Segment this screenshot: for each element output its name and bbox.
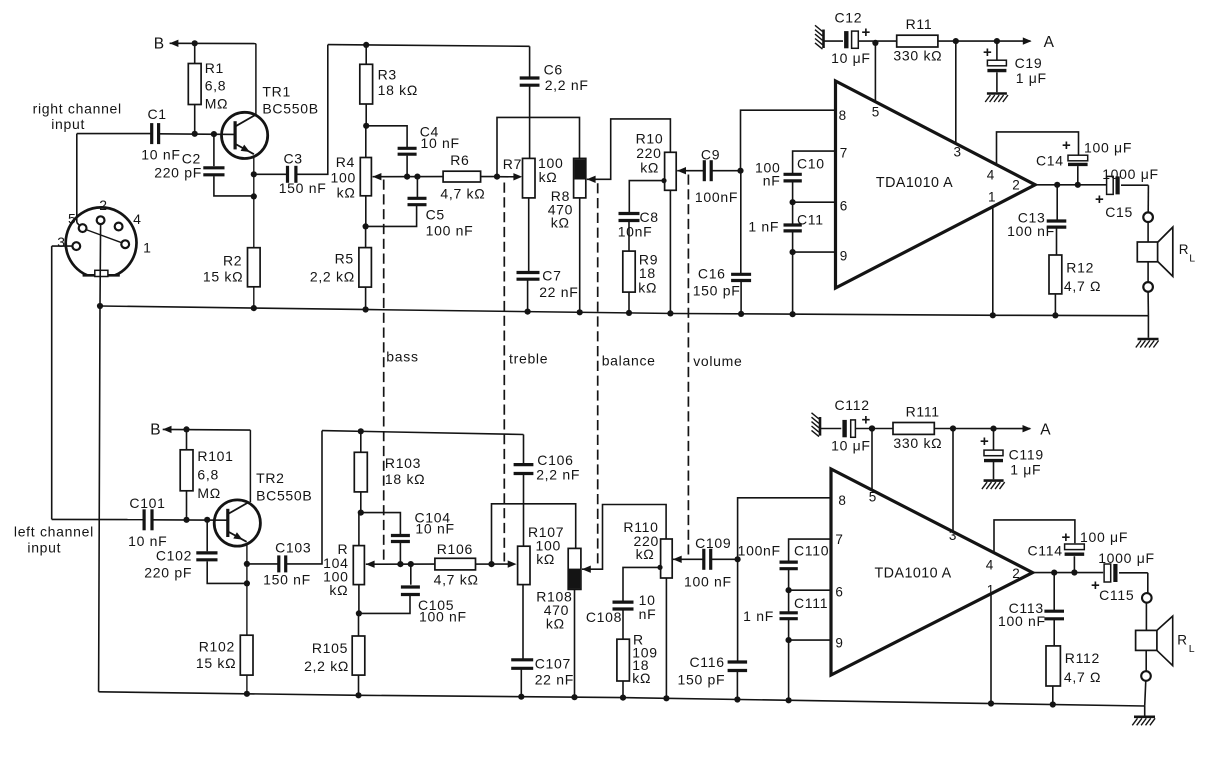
svg-text:input: input — [51, 116, 85, 132]
svg-text:C109: C109 — [695, 535, 731, 551]
svg-text:R105: R105 — [312, 640, 348, 656]
svg-text:10nF: 10nF — [618, 224, 653, 240]
svg-text:balance: balance — [602, 353, 656, 369]
svg-text:8: 8 — [839, 108, 847, 123]
svg-text:C10: C10 — [797, 156, 825, 172]
svg-text:kΩ: kΩ — [640, 160, 659, 176]
svg-text:4: 4 — [986, 558, 994, 573]
svg-text:TDA1010 A: TDA1010 A — [875, 565, 952, 581]
svg-text:1 nF: 1 nF — [743, 608, 774, 624]
svg-text:4,7 kΩ: 4,7 kΩ — [434, 572, 479, 588]
svg-text:9: 9 — [840, 249, 848, 264]
svg-text:22 nF: 22 nF — [539, 284, 578, 300]
svg-text:1: 1 — [143, 240, 152, 256]
svg-text:+: + — [983, 44, 992, 61]
svg-text:10 μF: 10 μF — [831, 438, 871, 454]
svg-text:1: 1 — [987, 583, 995, 598]
svg-text:TR2: TR2 — [256, 470, 285, 486]
svg-text:7: 7 — [835, 532, 843, 547]
svg-text:C114: C114 — [1028, 543, 1063, 559]
svg-text:R102: R102 — [199, 639, 235, 655]
svg-text:3: 3 — [57, 234, 66, 250]
svg-text:330 kΩ: 330 kΩ — [893, 435, 942, 451]
svg-text:R7: R7 — [503, 156, 522, 172]
svg-text:C115: C115 — [1099, 587, 1134, 603]
svg-text:kΩ: kΩ — [551, 215, 570, 231]
svg-text:right channel: right channel — [33, 101, 122, 117]
svg-text:C1: C1 — [148, 106, 167, 122]
svg-text:100 μF: 100 μF — [1080, 529, 1128, 545]
svg-text:C14: C14 — [1036, 153, 1064, 169]
svg-text:left channel: left channel — [14, 524, 94, 540]
svg-text:+: + — [1062, 137, 1071, 154]
svg-text:bass: bass — [386, 349, 418, 365]
svg-text:R103: R103 — [385, 455, 421, 471]
svg-text:C3: C3 — [284, 151, 303, 167]
svg-text:15 kΩ: 15 kΩ — [196, 655, 236, 671]
svg-text:100 nF: 100 nF — [426, 223, 474, 239]
svg-text:3: 3 — [954, 145, 962, 160]
svg-text:kΩ: kΩ — [539, 169, 558, 185]
svg-text:R112: R112 — [1065, 650, 1100, 666]
svg-text:100 nF: 100 nF — [1007, 223, 1055, 239]
svg-text:330 kΩ: 330 kΩ — [893, 48, 942, 64]
svg-text:R1: R1 — [205, 60, 224, 76]
svg-text:220 pF: 220 pF — [144, 565, 192, 581]
svg-text:3: 3 — [949, 528, 957, 543]
svg-text:volume: volume — [693, 353, 742, 369]
svg-text:A: A — [1044, 34, 1055, 51]
svg-text:6: 6 — [840, 199, 848, 214]
svg-text:MΩ: MΩ — [197, 485, 221, 501]
svg-text:BC550B: BC550B — [256, 488, 312, 504]
svg-text:100 nF: 100 nF — [419, 609, 467, 625]
svg-text:R4: R4 — [336, 154, 355, 170]
svg-text:C107: C107 — [535, 656, 571, 672]
svg-text:C15: C15 — [1105, 204, 1133, 220]
svg-text:TR1: TR1 — [262, 84, 291, 100]
svg-text:MΩ: MΩ — [205, 96, 229, 112]
svg-text:2,2 nF: 2,2 nF — [536, 467, 580, 483]
svg-text:kΩ: kΩ — [546, 616, 565, 632]
svg-text:BC550B: BC550B — [262, 101, 318, 117]
svg-text:R2: R2 — [223, 253, 242, 269]
svg-text:R101: R101 — [197, 448, 233, 464]
svg-text:L: L — [1189, 643, 1196, 655]
svg-text:A: A — [1040, 422, 1051, 439]
svg-text:1000 μF: 1000 μF — [1102, 166, 1159, 182]
svg-text:C7: C7 — [542, 268, 561, 284]
svg-text:10 μF: 10 μF — [831, 50, 871, 66]
svg-text:C110: C110 — [794, 543, 829, 559]
svg-text:L: L — [1189, 253, 1196, 265]
svg-text:10 nF: 10 nF — [415, 521, 454, 537]
svg-text:7: 7 — [840, 146, 848, 161]
svg-text:+: + — [1095, 191, 1104, 208]
svg-text:R: R — [1179, 242, 1189, 257]
svg-text:R6: R6 — [450, 152, 469, 168]
svg-text:5: 5 — [68, 211, 77, 227]
svg-text:4,7 Ω: 4,7 Ω — [1064, 278, 1101, 294]
svg-text:4: 4 — [133, 211, 142, 227]
svg-text:C102: C102 — [156, 548, 192, 564]
svg-text:10 nF: 10 nF — [421, 135, 460, 151]
svg-text:R3: R3 — [378, 67, 397, 83]
svg-text:B: B — [154, 36, 165, 53]
svg-text:2: 2 — [99, 197, 108, 213]
svg-text:+: + — [862, 24, 871, 41]
svg-text:C9: C9 — [701, 147, 720, 163]
svg-text:8: 8 — [838, 493, 846, 508]
svg-text:R106: R106 — [437, 541, 473, 557]
svg-text:1000 μF: 1000 μF — [1098, 550, 1155, 566]
svg-text:150 nF: 150 nF — [263, 572, 311, 588]
svg-text:2: 2 — [1012, 178, 1020, 193]
svg-text:15 kΩ: 15 kΩ — [203, 269, 243, 285]
svg-text:R: R — [1177, 633, 1187, 648]
svg-text:nF: nF — [763, 173, 781, 189]
svg-text:9: 9 — [835, 636, 843, 651]
svg-text:C6: C6 — [544, 62, 563, 78]
svg-text:C108: C108 — [586, 609, 622, 625]
svg-text:+: + — [862, 412, 871, 429]
svg-text:kΩ: kΩ — [329, 582, 348, 598]
svg-text:2,2 kΩ: 2,2 kΩ — [304, 658, 349, 674]
svg-text:C19: C19 — [1015, 55, 1043, 71]
svg-text:100 μF: 100 μF — [1084, 139, 1132, 155]
svg-text:C101: C101 — [129, 495, 165, 511]
svg-text:100nF: 100nF — [738, 543, 781, 559]
svg-text:100 nF: 100 nF — [684, 574, 732, 590]
svg-text:18 kΩ: 18 kΩ — [385, 471, 425, 487]
svg-text:1 nF: 1 nF — [748, 219, 779, 235]
svg-text:C116: C116 — [690, 654, 725, 670]
svg-text:kΩ: kΩ — [536, 551, 555, 567]
svg-text:kΩ: kΩ — [638, 280, 657, 296]
svg-text:input: input — [27, 540, 61, 556]
svg-text:C11: C11 — [797, 212, 824, 228]
svg-text:1: 1 — [988, 190, 996, 205]
svg-text:R111: R111 — [906, 404, 940, 420]
svg-text:1 μF: 1 μF — [1010, 462, 1041, 478]
svg-text:100: 100 — [331, 170, 356, 186]
svg-text:C111: C111 — [794, 595, 828, 611]
svg-text:kΩ: kΩ — [337, 185, 356, 201]
svg-text:6: 6 — [835, 585, 843, 600]
svg-text:C5: C5 — [426, 207, 445, 223]
svg-text:4,7 kΩ: 4,7 kΩ — [440, 186, 485, 202]
svg-text:R5: R5 — [335, 251, 354, 267]
svg-text:+: + — [980, 433, 989, 450]
svg-text:2,2 nF: 2,2 nF — [545, 77, 589, 93]
svg-text:100nF: 100nF — [695, 189, 738, 205]
svg-text:kΩ: kΩ — [636, 546, 655, 562]
svg-text:220 pF: 220 pF — [154, 165, 202, 181]
svg-text:R12: R12 — [1066, 260, 1094, 276]
svg-text:4,7 Ω: 4,7 Ω — [1064, 669, 1101, 685]
svg-text:+: + — [1062, 529, 1071, 546]
svg-text:4: 4 — [987, 168, 995, 183]
svg-text:kΩ: kΩ — [632, 670, 651, 686]
svg-text:nF: nF — [639, 606, 657, 622]
svg-text:5: 5 — [869, 490, 877, 505]
svg-text:22 nF: 22 nF — [535, 672, 574, 688]
svg-text:10 nF: 10 nF — [141, 147, 180, 163]
svg-text:6,8: 6,8 — [197, 467, 219, 483]
svg-text:150 nF: 150 nF — [279, 180, 327, 196]
svg-text:C119: C119 — [1009, 447, 1044, 463]
svg-text:5: 5 — [872, 105, 880, 120]
svg-text:150 pF: 150 pF — [678, 672, 726, 688]
svg-text:B: B — [150, 422, 161, 439]
svg-text:2: 2 — [1012, 566, 1020, 581]
svg-text:C16: C16 — [698, 266, 726, 282]
svg-text:1 μF: 1 μF — [1016, 70, 1047, 86]
svg-text:100 nF: 100 nF — [998, 613, 1046, 629]
svg-text:treble: treble — [509, 351, 548, 367]
svg-text:150 pF: 150 pF — [693, 283, 741, 299]
svg-text:18 kΩ: 18 kΩ — [378, 82, 418, 98]
svg-text:TDA1010 A: TDA1010 A — [876, 175, 953, 191]
svg-text:R11: R11 — [906, 16, 933, 32]
svg-text:C103: C103 — [275, 540, 311, 556]
svg-text:C12: C12 — [835, 10, 863, 26]
svg-text:6,8: 6,8 — [205, 78, 227, 94]
svg-text:2,2 kΩ: 2,2 kΩ — [310, 269, 355, 285]
